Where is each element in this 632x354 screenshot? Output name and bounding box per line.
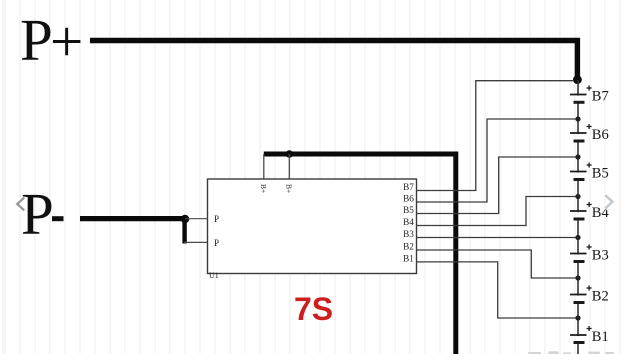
wire sense B2 pin to B2+ junction	[417, 250, 578, 278]
junction P- node	[181, 215, 189, 223]
wire sense B3 pin to B3+ junction (straight)	[417, 237, 578, 239]
junction B1/B2	[575, 315, 580, 320]
svg-text:B2: B2	[592, 289, 609, 305]
wire battery stack spine	[577, 80, 579, 354]
svg-text:B6: B6	[403, 194, 414, 204]
wire P- thick vertical drop	[182, 219, 186, 244]
svg-text:B5: B5	[403, 205, 414, 215]
wire sense B4 pin to B4+ junction	[417, 197, 578, 226]
svg-text:B2: B2	[403, 242, 414, 252]
svg-text:B1: B1	[592, 329, 609, 345]
right carousel chevron overlay	[605, 195, 612, 208]
junction pack top (P+ to B7+)	[573, 75, 582, 84]
left carousel chevron overlay	[17, 198, 24, 211]
svg-text:P: P	[20, 7, 53, 73]
wire sense B1 pin to B1+ junction	[417, 262, 578, 318]
op-amp U1 protection IC body	[208, 179, 417, 274]
svg-text:P: P	[21, 181, 54, 247]
wire P- thick horizontal	[80, 216, 185, 221]
svg-text:B7: B7	[403, 182, 414, 192]
wire stub IC top pin 2	[288, 154, 290, 180]
wire sense B5 pin to B5+ junction	[417, 157, 578, 214]
junction B4/B5	[575, 194, 580, 199]
junction B3/B4	[575, 235, 580, 240]
wire stub to pin P (upper)	[185, 218, 209, 220]
junction B5/B6	[575, 154, 580, 159]
battery B2	[570, 286, 592, 303]
wire stub to pin P (lower)	[184, 241, 209, 243]
svg-text:7S: 7S	[294, 291, 333, 327]
wire sense B7 pin to B7+ junction	[417, 81, 573, 191]
svg-text:B6: B6	[592, 127, 609, 143]
wire P+ thick horizontal and down to pack top	[90, 41, 577, 77]
battery B4	[570, 202, 592, 219]
battery B5	[570, 163, 592, 180]
junction B2/B3	[575, 275, 580, 280]
wire stub IC top pin 1	[263, 154, 265, 180]
svg-text:P: P	[214, 238, 219, 248]
wire IC-top thick bus down the middle	[264, 154, 456, 354]
svg-text:B1: B1	[403, 254, 414, 264]
svg-text:B+: B+	[284, 184, 293, 193]
svg-text:B3: B3	[403, 229, 414, 239]
svg-text:B7: B7	[592, 89, 609, 105]
svg-text:B5: B5	[592, 166, 609, 182]
svg-text:P: P	[214, 214, 219, 224]
battery B3	[570, 245, 592, 262]
battery B1	[570, 326, 592, 343]
svg-text:B4: B4	[403, 217, 414, 227]
battery B6	[570, 124, 592, 141]
svg-text:+: +	[50, 9, 83, 75]
svg-text:B+: B+	[259, 184, 268, 193]
battery B7	[570, 86, 592, 103]
junction B6/B7	[575, 116, 580, 121]
cropped watermark remnant at bottom edge	[528, 351, 614, 354]
svg-text:U1: U1	[209, 271, 219, 280]
wire sense B6 pin to B6+ junction	[417, 119, 578, 202]
junction on IC-top wire	[286, 150, 294, 158]
white gap on spine for B7 plates	[577, 96, 579, 101]
svg-text:B3: B3	[592, 248, 609, 264]
